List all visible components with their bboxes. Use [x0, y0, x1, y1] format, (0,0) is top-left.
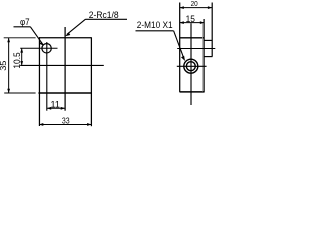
front view top edge [39, 37, 91, 39]
leader M10 underline [136, 30, 174, 32]
side view left edge and 20 dim extension [179, 3, 181, 92]
arrow dim11 left [47, 107, 51, 110]
extension line bottom left [4, 92, 35, 94]
svg-text:33: 33 [62, 116, 70, 126]
port centerline front [64, 27, 66, 111]
leader M10 line [174, 31, 184, 59]
boss bottom edge [204, 56, 212, 58]
arrow dim15 left [180, 21, 184, 24]
arrow phi7 leader [39, 42, 44, 46]
leader phi7 line [30, 27, 43, 45]
svg-text:10.5: 10.5 [12, 52, 22, 68]
svg-text:2-Rc1/8: 2-Rc1/8 [89, 10, 119, 21]
svg-text:φ7: φ7 [20, 16, 30, 27]
thread M10 inner circle [186, 62, 195, 71]
dim line 33 [39, 123, 91, 125]
arrow dim35 bottom [7, 89, 10, 93]
arrow dim33 left [39, 123, 43, 126]
svg-text:15: 15 [186, 13, 195, 24]
svg-text:20: 20 [191, 1, 198, 9]
centerline phi7 horizontal side [177, 48, 215, 50]
centerline side vertical [190, 23, 192, 105]
leader Rc line [67, 19, 86, 34]
dim line 35 [8, 38, 10, 93]
centerline M10 horizontal side [177, 65, 207, 67]
dim line 11 [47, 107, 65, 109]
side view right edge and 15 dim extension [203, 19, 205, 92]
side view bottom edge [180, 91, 205, 93]
dim line 10.5 [21, 48, 23, 65]
centerline M10 horizontal front [20, 64, 104, 66]
arrow Rc leader [65, 32, 70, 36]
arrow dim10.5 bottom [20, 61, 23, 65]
front view right edge [90, 37, 92, 126]
dim line 20 [180, 7, 213, 9]
arrow dim20 right [208, 6, 212, 9]
dim line 15 [180, 22, 205, 24]
extension line top left [4, 37, 36, 39]
arrow dim20 left [180, 6, 184, 9]
arrow dim10.5 top [20, 48, 23, 52]
svg-text:35: 35 [0, 60, 8, 70]
arrow M10 leader [181, 56, 185, 61]
arrow dim15 right [200, 21, 204, 24]
leader phi7 underline [14, 26, 31, 28]
side view top edge [180, 37, 205, 39]
front view left edge [38, 37, 40, 126]
svg-text:11: 11 [51, 99, 60, 109]
centerline phi7 vertical [46, 42, 48, 111]
boss top edge [204, 39, 212, 41]
boss right edge and 20 dim extension [211, 3, 213, 57]
arrow dim11 right [61, 107, 65, 110]
centerline phi7 horizontal [20, 47, 57, 49]
port wall faint line [201, 23, 203, 92]
hole phi7 [42, 44, 51, 53]
thread M10 outer circle [184, 59, 198, 73]
arrow dim33 right [87, 123, 91, 126]
front view bottom edge [38, 92, 92, 94]
leader Rc underline [86, 18, 128, 20]
arrow dim35 top [7, 38, 10, 42]
svg-text:2-M10 X1: 2-M10 X1 [137, 20, 173, 31]
